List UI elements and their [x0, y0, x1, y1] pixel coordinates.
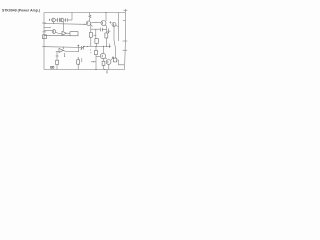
node dot ground x96 — [95, 69, 96, 70]
wire Q1 emitter drop — [53, 22, 55, 24]
wire Q7 output to R5 — [66, 32, 70, 34]
wire C3 to R4 — [106, 30, 108, 33]
transistor Q9 output — [100, 53, 105, 58]
node dot x87.5 — [87, 46, 88, 47]
wire lower bias rail y35.7 — [44, 35, 70, 37]
transistor Q1 — [52, 18, 56, 22]
wire R4 bottom to feedback row — [106, 38, 108, 46]
wire stub x64.7 — [64, 53, 66, 56]
node dot x96 feedback row — [95, 46, 96, 47]
transistor Q8 driver — [59, 48, 63, 52]
node dot x93.3 — [93, 61, 94, 62]
wire R9 to ground rail — [95, 55, 97, 70]
resistor R4 — [105, 33, 108, 38]
pin tick right border y50 — [123, 49, 128, 51]
wire Q9 collector up — [103, 46, 105, 53]
wire Q10 collector arrow — [111, 58, 113, 60]
wire Q4 emitter drop — [105, 25, 106, 30]
transistor Q3 — [86, 21, 90, 25]
wire R8 to ground rail — [77, 64, 79, 69]
wire x108.6 short drop — [107, 28, 111, 33]
wire drop from top rail x72 — [71, 13, 73, 21]
resistor R1 in left rail — [43, 35, 47, 39]
wire Q6 collector stub — [44, 27, 51, 29]
wire bias leg x57 — [56, 51, 58, 60]
transistor Q6 — [52, 30, 56, 34]
wire Q10 emitter to ground rail — [108, 64, 110, 69]
wire R10 to ground rail — [103, 65, 105, 69]
node dot x49.5 — [49, 19, 50, 20]
node dot x78.3 — [78, 51, 79, 52]
wire Q3 emitter branch down to R3 — [90, 24, 92, 32]
wire inner line x114 to R11 — [114, 25, 115, 58]
node dot Q9 collector at row — [103, 46, 104, 47]
svg-text:STK0049 (Power Amp.): STK0049 (Power Amp.) — [2, 8, 40, 12]
transistor Q7 driver — [62, 31, 66, 35]
wire R3 bottom to feedback row — [90, 37, 92, 46]
wire Q8 base tick — [56, 51, 59, 53]
node tick x109.3 crossing row — [108, 44, 110, 48]
transistor Q2 — [60, 18, 64, 22]
wire R12 lead up to cap row — [95, 29, 97, 38]
pin tick right border y20.5 — [123, 20, 125, 22]
node tick on left rail y23 — [42, 22, 46, 24]
resistor R10 — [102, 61, 105, 65]
capacitor C2 — [64, 18, 72, 22]
resistor R2 on Q3 collector — [89, 13, 91, 22]
wire bottom ground rail — [44, 69, 125, 71]
node dot top rail x106 — [106, 12, 107, 13]
node dots below row near x90.5 — [89, 49, 92, 52]
wire cap row y29.6 — [91, 28, 100, 30]
wire Q9 emitter arrow — [105, 58, 107, 59]
resistor R6 — [56, 60, 59, 64]
wire Q3 to Q4 base — [91, 21, 101, 24]
node dot x108.6 — [108, 32, 109, 33]
node dot x64.7 — [64, 56, 65, 57]
resistor R3 — [89, 33, 92, 38]
node dot R8 top — [78, 57, 79, 58]
resistor R11 — [113, 58, 117, 62]
node tick y61.8 — [91, 61, 96, 63]
resistor R8 — [77, 60, 80, 64]
wire R8 lead up — [77, 58, 79, 60]
node junction x49.5 — [49, 19, 51, 21]
pin tick right border y41 — [123, 40, 128, 42]
wire Q6 emitter arrow to Q7 — [56, 32, 62, 33]
node tick x57 y56 — [56, 55, 59, 57]
transistor Q5 — [112, 23, 116, 27]
wire drop x96 to R9 — [95, 46, 97, 50]
node dot x84.3 — [84, 24, 85, 25]
wire R6 to ground rail — [56, 65, 58, 70]
capacitor C3 — [100, 28, 106, 32]
wire drop to Q8 collector — [63, 47, 65, 50]
resistor R9 — [95, 50, 98, 54]
node dot x110 feedback row — [109, 46, 110, 47]
pin stub bottom x107 — [106, 70, 108, 74]
capacitor C4 — [81, 46, 85, 50]
wire top supply rail — [44, 12, 125, 14]
wire right line x118 from top rail — [117, 13, 119, 42]
wire Q3 emitter arrow — [90, 25, 92, 27]
node dot ground x104.6 — [104, 69, 105, 70]
resistor R12 — [95, 39, 98, 44]
wire R11 out L-shape — [117, 60, 124, 65]
wire Q5 emitter arrow — [116, 25, 119, 26]
resistor R5 — [70, 32, 78, 36]
wire left main rail — [43, 13, 45, 70]
wire feedback row right segment — [84, 45, 110, 48]
wire stub x81.8 — [81, 58, 83, 62]
node junction cross x110.5 — [109, 21, 111, 23]
node dot x106.6 feedback row — [106, 46, 107, 47]
wire Q4 collector to top rail — [105, 13, 107, 21]
transistor Q10 output — [106, 60, 111, 65]
wire R12 lead down to row — [95, 43, 97, 46]
wire Q8 output to x78.3 — [63, 50, 78, 51]
wire riser x78.3 to feedback row with arrowhead — [78, 45, 80, 52]
wire Q9 to R10 — [103, 58, 105, 61]
pin Vcc tick top right — [123, 9, 127, 11]
wire feedback row left segment — [44, 46, 81, 49]
wire Q9 base — [96, 55, 101, 57]
resistor R7 tiny marks — [51, 66, 52, 68]
wire Q2 collector drop to diode row — [63, 22, 65, 31]
node tick on left rail y46.7 — [42, 46, 46, 48]
wire right border rail — [124, 9, 127, 70]
node tick on left rail y32 — [42, 31, 46, 33]
capacitor C1 — [55, 18, 60, 22]
transistor Q4 — [101, 21, 106, 26]
node cross x113 y57.3 — [112, 56, 114, 58]
wire Q6 base from rail — [44, 30, 52, 32]
node tick x96 y35 — [93, 34, 96, 36]
node dot pin x107 — [106, 71, 107, 72]
wire mid rail y23.7 — [44, 23, 86, 26]
